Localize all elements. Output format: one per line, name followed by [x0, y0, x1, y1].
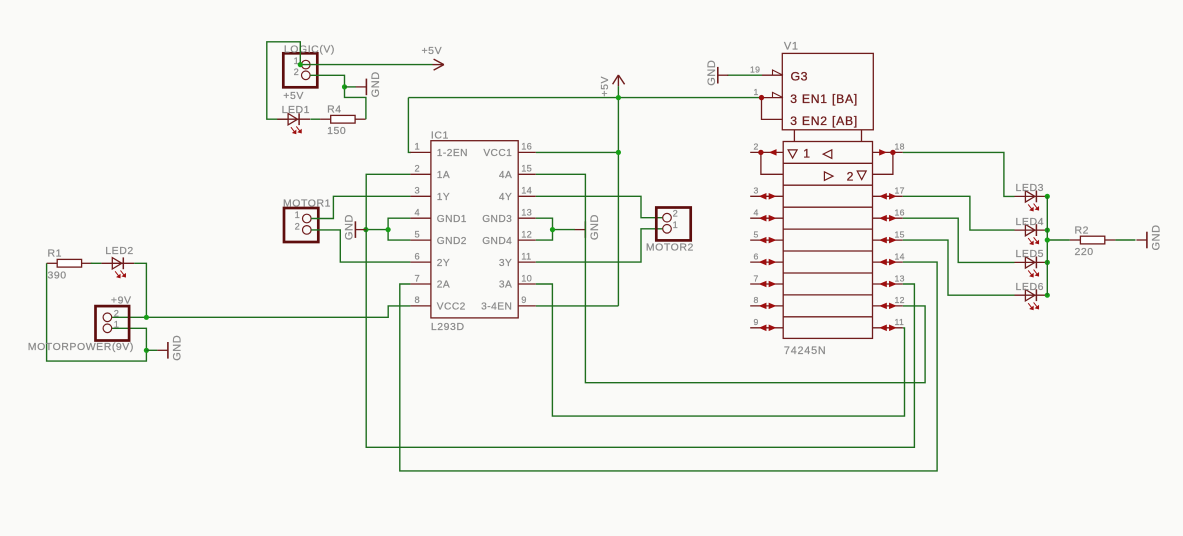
- svg-text:+5V: +5V: [422, 45, 443, 57]
- junction node VCC2 at MOTORPOWER: [144, 315, 149, 320]
- wire V1 pin16 to LED5: [903, 218, 1015, 262]
- svg-text:4: 4: [754, 208, 759, 218]
- svg-text:LED3: LED3: [1016, 182, 1044, 194]
- svg-text:3 EN1 [BA]: 3 EN1 [BA]: [790, 92, 858, 106]
- junction node LED3 cathode on LED bus: [1045, 194, 1050, 199]
- ground symbol GND near MOTORPOWER: [157, 335, 183, 361]
- svg-text:LED5: LED5: [1016, 248, 1044, 260]
- wire net +5V from LOGIC pin 1 to +5V arrow: [300, 64, 432, 66]
- IC1 pin 12 (GND4) stub and label: [482, 229, 536, 246]
- svg-text:14: 14: [895, 251, 905, 261]
- svg-text:1: 1: [673, 220, 678, 230]
- svg-text:13: 13: [521, 208, 532, 218]
- LED LED4: [1015, 216, 1048, 245]
- wire net +5V rail to IC1 pin 9: [536, 305, 619, 307]
- svg-text:2Y: 2Y: [437, 258, 450, 269]
- svg-text:GND: GND: [1150, 224, 1162, 250]
- wire net +5V IC1 pin16 to rail: [536, 151, 619, 153]
- ground symbol GND at R2: [1136, 224, 1162, 250]
- svg-text:17: 17: [895, 186, 905, 196]
- junction node GND tap on pin1 rail: [144, 348, 158, 353]
- svg-text:1: 1: [114, 320, 119, 330]
- junction node LED4 cathode on LED bus: [1045, 228, 1050, 233]
- svg-text:2A: 2A: [437, 280, 450, 291]
- svg-text:1: 1: [803, 146, 810, 160]
- V1 pin 3 stub (left): [750, 186, 783, 199]
- V1 pin 4 stub (left): [750, 208, 783, 221]
- svg-text:4: 4: [415, 208, 420, 218]
- IC1 pin 16 (VCC1) stub and label: [483, 142, 535, 159]
- resistor R2 220: [1070, 224, 1116, 258]
- svg-text:IC1: IC1: [431, 130, 449, 142]
- V1 pin 9 stub (left): [750, 317, 783, 330]
- svg-text:LOGIC(V): LOGIC(V): [284, 43, 335, 55]
- connector MOTORPOWER(9V): [28, 294, 134, 353]
- wire net 3Y: IC1 pin11 to MOTOR2 pin1: [536, 229, 663, 262]
- V1 pin 2 stub (left): [750, 142, 783, 175]
- V1 pin 15 stub (right): [873, 229, 905, 242]
- svg-text:3: 3: [754, 186, 759, 196]
- V1 pin 19 (G3) stub with enable marker: [750, 65, 783, 76]
- IC1 pin 3 (1Y) stub and label: [410, 186, 450, 203]
- svg-text:3: 3: [415, 186, 420, 196]
- IC1 pin 2 (1A) stub and label: [410, 164, 450, 181]
- svg-text:1: 1: [415, 142, 420, 152]
- svg-text:MOTOR2: MOTOR2: [646, 242, 694, 254]
- V1 pin 6 stub (left): [750, 251, 783, 264]
- wire V1 pin15 to LED6: [903, 240, 1015, 295]
- junction node GND near LOGIC: [342, 84, 347, 89]
- wire LED bus vertical: [1046, 196, 1048, 295]
- svg-text:G3: G3: [791, 69, 809, 83]
- connector MOTOR2: [646, 208, 694, 254]
- LED LED6: [1015, 281, 1048, 310]
- IC1 pin 15 (4A) stub and label: [499, 164, 536, 181]
- svg-text:16: 16: [895, 208, 905, 218]
- wire R1 left to MOTORPOWER pin1 rail: [47, 263, 147, 361]
- svg-text:19: 19: [750, 65, 760, 75]
- svg-text:GND: GND: [370, 71, 382, 97]
- wire net 4A: IC1 pin15 long route to V1 pin12: [536, 174, 925, 382]
- wire LED2 cathode down to VCC2 net: [134, 263, 146, 317]
- svg-text:R4: R4: [327, 104, 342, 116]
- svg-text:2: 2: [673, 209, 678, 219]
- wire MOTOR1 pin2 to IC1 2Y: [311, 230, 410, 262]
- svg-text:MOTOR1: MOTOR1: [283, 197, 331, 209]
- svg-text:2: 2: [114, 309, 119, 319]
- svg-text:2: 2: [847, 170, 854, 184]
- svg-text:16: 16: [521, 142, 532, 152]
- svg-text:6: 6: [754, 251, 759, 261]
- svg-text:7: 7: [415, 273, 420, 283]
- connector MOTOR1: [283, 197, 331, 242]
- V1 direction symbols row 2: [824, 170, 866, 184]
- wire net VCC2 (+9V): IC1 pin8 to MOTORPOWER pin2: [146, 306, 410, 317]
- svg-text:3Y: 3Y: [499, 258, 512, 269]
- IC V1 74245N control box: [782, 41, 873, 142]
- supply symbol +5V (right-pointing arrow): [422, 45, 444, 70]
- LED LED3: [1015, 182, 1048, 211]
- wire net 3A: IC1 pin10 long route to V1 pin11: [536, 284, 905, 416]
- resistor R4 150: [320, 104, 366, 138]
- V1 pin 13 stub (right): [873, 273, 905, 286]
- ground symbol GND right of IC1: [575, 214, 601, 240]
- IC1 pin 14 (4Y) stub and label: [499, 186, 536, 203]
- V1 pin 16 stub (right): [873, 208, 905, 221]
- svg-text:2: 2: [754, 142, 759, 152]
- wire LOGIC pin 2 to GND junction: [310, 75, 344, 87]
- junction node LED6 cathode on LED bus: [1045, 293, 1050, 298]
- V1 pin 17 stub (right): [873, 186, 905, 199]
- V1 direction symbols row 1: [788, 146, 832, 160]
- V1 pin 7 stub (left): [750, 273, 783, 286]
- svg-text:74245N: 74245N: [784, 345, 827, 357]
- svg-text:+5V: +5V: [599, 76, 611, 97]
- ground symbol GND at V1 pin19: [706, 60, 728, 86]
- svg-text:11: 11: [521, 251, 531, 261]
- IC1 pin 11 (3Y) stub and label: [499, 251, 536, 268]
- svg-text:R1: R1: [48, 248, 63, 260]
- IC U IC1 L293D body: [431, 130, 518, 333]
- V1 pin 12 stub (right): [873, 295, 905, 308]
- svg-text:2: 2: [294, 67, 299, 77]
- junction node at LOGIC pin 1: [298, 62, 303, 67]
- wire MOTOR1 pin1 to IC1 1Y: [311, 196, 410, 218]
- svg-text:5: 5: [415, 229, 420, 239]
- wire V1 pin18 to LED3: [903, 152, 1015, 196]
- wire LED bus to R2: [1045, 237, 1070, 242]
- svg-text:3 EN2 [AB]: 3 EN2 [AB]: [790, 114, 858, 128]
- svg-text:8: 8: [415, 295, 420, 305]
- svg-text:2: 2: [295, 221, 300, 231]
- svg-text:R2: R2: [1075, 224, 1090, 236]
- wire GND to V1 pin19: [727, 74, 762, 76]
- wire GND bracket IC1 pins 4-5: [388, 218, 410, 240]
- svg-text:1: 1: [295, 210, 300, 220]
- wire R2 to GND: [1115, 239, 1135, 241]
- svg-text:14: 14: [521, 186, 532, 196]
- supply symbol +5V (up arrow) on main rail: [599, 75, 625, 97]
- V1 pin 5 stub (left): [750, 229, 783, 242]
- svg-text:LED4: LED4: [1016, 216, 1044, 228]
- svg-text:GND: GND: [344, 214, 356, 240]
- svg-text:13: 13: [895, 273, 905, 283]
- svg-text:GND2: GND2: [437, 236, 467, 247]
- svg-text:12: 12: [895, 295, 905, 305]
- wire net 1A: IC1 pin2 down long route to V1 pin13: [366, 174, 914, 447]
- svg-text:2: 2: [415, 164, 420, 174]
- V1 pin 14 stub (right): [873, 251, 905, 264]
- IC1 pin 5 (GND2) stub and label: [410, 229, 467, 246]
- svg-text:1Y: 1Y: [437, 192, 450, 203]
- junction node GND bracket left side: [363, 227, 390, 232]
- svg-text:12: 12: [521, 229, 532, 239]
- LED LED2: [101, 245, 134, 278]
- svg-text:4Y: 4Y: [499, 192, 512, 203]
- ground symbol GND near LOGIC: [345, 71, 382, 97]
- svg-text:390: 390: [48, 269, 67, 281]
- svg-text:11: 11: [895, 317, 905, 327]
- svg-text:GND3: GND3: [482, 214, 512, 225]
- svg-text:VCC1: VCC1: [483, 148, 512, 159]
- wire V1 pin17 to LED4: [903, 196, 1015, 230]
- V1 pin 18 stub (right): [873, 142, 905, 175]
- IC1 pin 1 (1-2EN) stub and label: [410, 142, 468, 159]
- V1 pin 11 stub (right): [873, 317, 905, 330]
- V1 pin 1 (EN1) stub, marker, junction and bracket to EN2: [754, 87, 784, 119]
- LED LED5: [1015, 248, 1048, 277]
- svg-text:8: 8: [754, 295, 759, 305]
- svg-text:GND: GND: [171, 335, 183, 361]
- wire net +5V vertical rail: [617, 86, 619, 306]
- svg-text:18: 18: [895, 142, 905, 152]
- wire R1 to LED2 anode: [91, 262, 102, 264]
- IC1 pin 10 (3A) stub and label: [499, 273, 536, 290]
- svg-text:GND: GND: [589, 214, 601, 240]
- svg-text:3-4EN: 3-4EN: [481, 302, 512, 313]
- junction node +5V rail upper: [616, 95, 621, 100]
- wire GND bracket IC1 pins 13-12: [536, 218, 575, 240]
- svg-text:+5V: +5V: [283, 90, 304, 102]
- wire net +5V horizontal to IC1 pin1 and V1 pin1: [408, 97, 761, 99]
- svg-text:V1: V1: [784, 41, 799, 53]
- wire net 2A: IC1 pin7 down long route to V1 pin14: [400, 262, 937, 471]
- svg-text:MOTORPOWER(9V): MOTORPOWER(9V): [28, 341, 134, 353]
- svg-text:L293D: L293D: [431, 321, 465, 333]
- wire net +5V down to IC1 pin 1: [408, 98, 411, 153]
- svg-text:15: 15: [895, 229, 905, 239]
- V1 pin 8 stub (left): [750, 295, 783, 308]
- svg-text:1A: 1A: [437, 170, 450, 181]
- svg-text:6: 6: [415, 251, 420, 261]
- wire net +5V from LOGIC pin 1 up and around to LED1: [267, 42, 301, 119]
- svg-text:4A: 4A: [499, 170, 512, 181]
- svg-text:5: 5: [754, 229, 759, 239]
- svg-text:15: 15: [521, 164, 532, 174]
- svg-text:150: 150: [327, 125, 346, 137]
- IC1 pin 13 (GND3) stub and label: [482, 208, 536, 225]
- svg-text:1-2EN: 1-2EN: [437, 148, 468, 159]
- ground symbol GND near MOTOR1: [344, 214, 366, 240]
- svg-text:GND: GND: [706, 60, 718, 86]
- svg-text:1: 1: [754, 87, 759, 97]
- wire R4 to GND junction near LOGIC: [345, 87, 366, 119]
- wire MOTORPOWER pin2 to VCC2 net: [112, 316, 146, 318]
- svg-text:7: 7: [754, 273, 759, 283]
- IC1 pin 8 (VCC2) stub and label: [410, 295, 465, 312]
- svg-text:GND4: GND4: [482, 236, 512, 247]
- svg-text:LED6: LED6: [1016, 281, 1044, 293]
- connector LOGIC(V) J1: [283, 43, 335, 102]
- junction node +5V rail at pin16 row: [616, 150, 621, 155]
- IC V1 74245N buffer array box: [783, 142, 872, 357]
- svg-text:VCC2: VCC2: [437, 302, 466, 313]
- IC1 pin 7 (2A) stub and label: [410, 273, 450, 290]
- LED LED1: [277, 104, 310, 134]
- resistor R1 390: [47, 248, 93, 282]
- IC1 pin 9 (3-4EN) stub and label: [481, 295, 536, 312]
- svg-text:LED2: LED2: [105, 245, 133, 257]
- IC1 pin 4 (GND1) stub and label: [410, 208, 467, 225]
- svg-text:+9V: +9V: [111, 294, 132, 306]
- svg-text:3A: 3A: [499, 280, 512, 291]
- svg-text:LED1: LED1: [282, 104, 310, 116]
- svg-text:9: 9: [754, 317, 759, 327]
- IC1 pin 6 (2Y) stub and label: [410, 251, 450, 268]
- svg-text:10: 10: [521, 273, 532, 283]
- svg-text:GND1: GND1: [437, 214, 467, 225]
- svg-text:220: 220: [1075, 246, 1094, 258]
- wire net 4Y: IC1 pin14 to MOTOR2 pin2: [536, 196, 663, 217]
- junction node LED5 cathode on LED bus: [1045, 260, 1050, 265]
- svg-text:9: 9: [521, 295, 526, 305]
- wire LED1 cathode to R4: [310, 118, 320, 120]
